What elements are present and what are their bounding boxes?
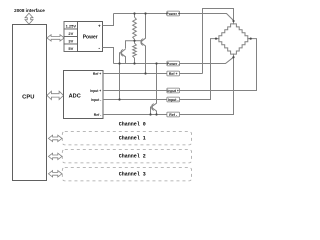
node label Ref +: [167, 71, 180, 76]
power supply block U2: [78, 22, 103, 52]
channel box Channel 1 (dashed): [62, 132, 191, 145]
node: Q3 base to Ref- junction: [149, 113, 151, 115]
node label Power -: [167, 61, 180, 66]
channel box Channel 3 (dashed): [62, 168, 191, 181]
voltage select box 1.25V: [64, 22, 78, 30]
svg-text:ADC: ADC: [69, 93, 81, 99]
bridge resistor RB1 (top-left): [216, 21, 234, 39]
transistor Q2: [121, 50, 123, 55]
transistor Q2 envelope: [121, 49, 123, 56]
resistor R2: [134, 41, 136, 44]
svg-text:Channel 0: Channel 0: [119, 122, 146, 128]
svg-text:1.25V: 1.25V: [66, 24, 77, 29]
node: bridge right vertex: [250, 38, 252, 40]
svg-text:Input +: Input +: [90, 89, 101, 93]
ADC U3: [64, 71, 104, 119]
transistor Q1: [141, 40, 143, 45]
node: Q1 collector junction: [144, 12, 146, 14]
svg-text:Power +: Power +: [166, 12, 180, 16]
svg-text:Ref +: Ref +: [169, 72, 178, 76]
node: R1 top junction: [133, 12, 135, 14]
wire: power - output down to bottom rail: [103, 48, 114, 64]
svg-text:+: +: [98, 24, 101, 29]
node label Input -: [167, 97, 180, 102]
svg-text:2V: 2V: [68, 31, 73, 36]
bus arrow: CPU to ADC: [47, 91, 64, 99]
resistor R1: [134, 14, 136, 18]
svg-text:Ref -: Ref -: [169, 113, 178, 117]
svg-text:CPU: CPU: [22, 95, 34, 101]
node: Q3 emitter to Ref- junction: [155, 113, 157, 115]
svg-text:Power -: Power -: [167, 62, 180, 66]
wire: bridge top sense loop to Ref +: [203, 9, 234, 74]
wire: top excitation rail to bridge top: [114, 14, 234, 21]
node: bridge bottom vertex: [232, 56, 234, 58]
bus arrow: CPU to power selects: [47, 35, 64, 41]
wire: Q2 base hook down to input - net: [120, 53, 122, 100]
svg-text:Ref +: Ref +: [93, 72, 101, 76]
node: bridge top vertex: [232, 20, 234, 22]
node: bridge left vertex: [215, 38, 217, 40]
bus arrow: CPU to Channel 3: [48, 171, 62, 177]
wire: Q3 base hook to ref - row: [151, 107, 153, 115]
svg-text:5V: 5V: [68, 46, 73, 51]
wire: Ref - row to bridge bottom vertex: [103, 57, 234, 114]
node: R2 bottom junction: [133, 62, 135, 64]
svg-text:Channel 2: Channel 2: [119, 154, 146, 160]
node: input- net junction on rail: [118, 62, 120, 64]
bridge resistor RB2 (top-right): [234, 21, 251, 39]
wire: Ref + row: [103, 73, 203, 75]
svg-text:Channel 3: Channel 3: [119, 172, 146, 178]
node: Q1 emitter to Ref+ junction: [144, 72, 146, 74]
bus arrow: CPU to Channel 1: [48, 135, 62, 141]
node: divider tap junction: [133, 40, 135, 42]
wire: R1/R2 tap to Q2 collector: [126, 41, 135, 49]
node label Power +: [167, 11, 180, 16]
svg-text:-: -: [98, 45, 100, 51]
svg-text:Input +: Input +: [167, 89, 179, 93]
node: Q3 collector junction: [155, 62, 157, 64]
node label Input +: [167, 88, 180, 93]
channel box Channel 2 (dashed): [62, 150, 191, 163]
transistor Q1 envelope: [141, 39, 143, 46]
svg-text:Power: Power: [83, 34, 98, 40]
svg-text:Input -: Input -: [168, 98, 180, 102]
svg-text:Channel 1: Channel 1: [119, 136, 146, 142]
bus arrow: interface to CPU: [25, 13, 33, 24]
voltage select box 5V: [64, 44, 78, 52]
wire: power + output to top rail: [103, 14, 114, 26]
wire: bottom excitation rail to bridge bottom: [114, 57, 234, 63]
bridge resistor RB3 (bottom-left): [216, 39, 234, 58]
wire: tap to Q1 base: [135, 40, 142, 42]
bus arrow: CPU to Channel 2: [48, 153, 62, 159]
transistor Q3: [151, 105, 153, 110]
voltage select box 2V: [64, 29, 78, 37]
bridge resistor RB4 (bottom-right): [234, 39, 251, 58]
voltage select box 3V: [64, 37, 78, 45]
wire: Input + row to bridge right vertex: [103, 39, 257, 91]
transistor Q3 envelope: [151, 104, 153, 111]
svg-text:Ref -: Ref -: [94, 113, 102, 117]
svg-text:2008 interface: 2008 interface: [14, 8, 45, 13]
svg-text:3V: 3V: [68, 39, 73, 44]
CPU U1: [13, 25, 47, 181]
svg-text:Input -: Input -: [91, 98, 101, 102]
node: Q2 net to Input- junction: [118, 98, 120, 100]
wire: Input - row to bridge left vertex: [103, 39, 216, 100]
node label Ref -: [167, 112, 180, 117]
